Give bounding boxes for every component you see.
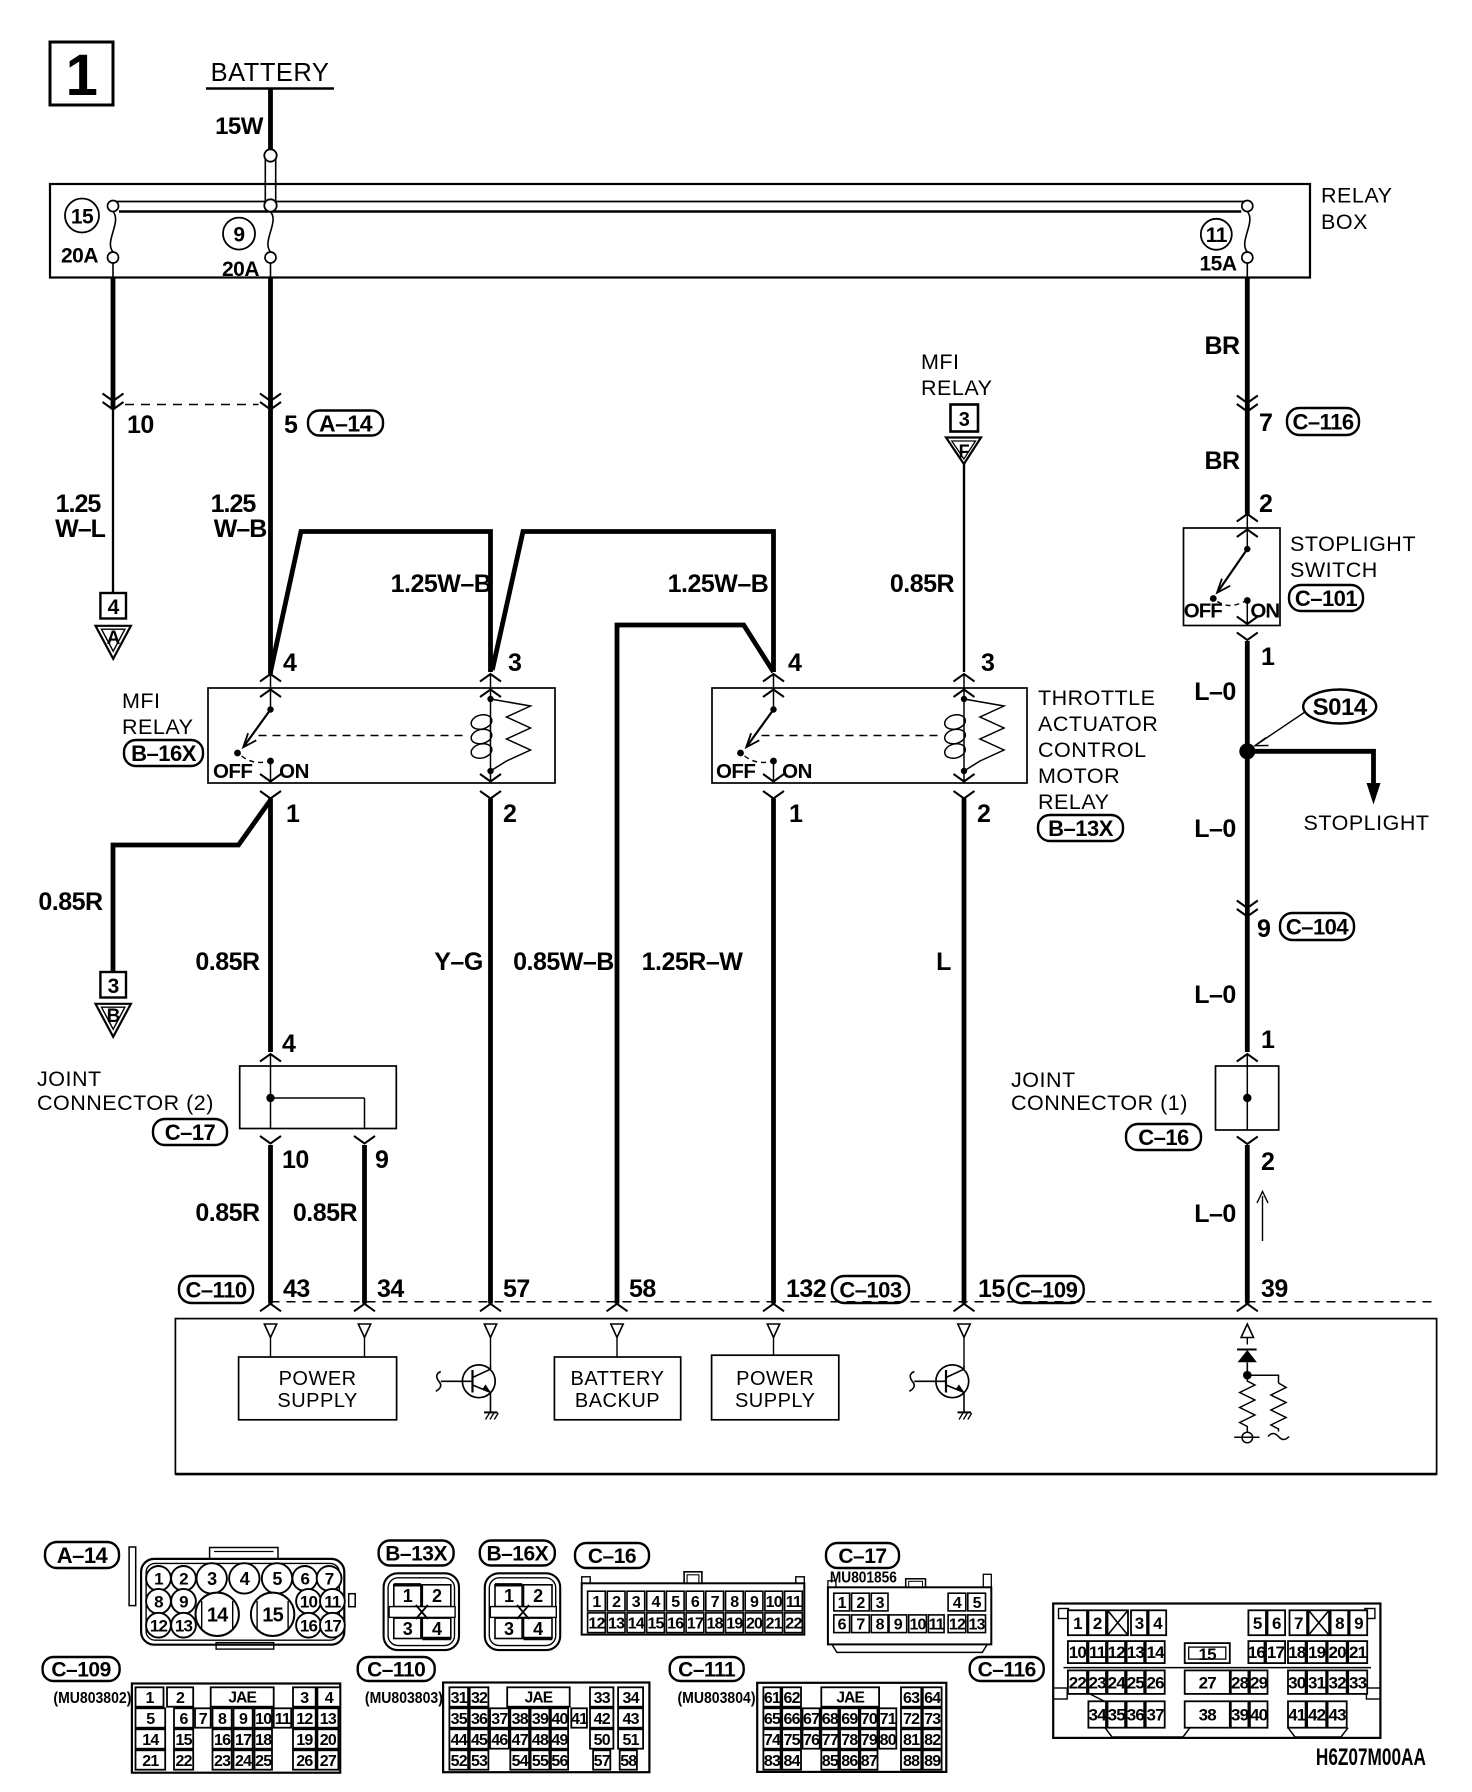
svg-text:3: 3 bbox=[108, 975, 119, 998]
svg-text:16: 16 bbox=[667, 1616, 684, 1633]
svg-text:B–16X: B–16X bbox=[486, 1543, 548, 1566]
A-14 cavity 1 bbox=[146, 1566, 171, 1591]
svg-text:2: 2 bbox=[856, 1595, 865, 1612]
svg-text:44: 44 bbox=[451, 1732, 468, 1749]
connector label B-13X bbox=[1038, 815, 1123, 841]
svg-text:12: 12 bbox=[296, 1711, 313, 1728]
svg-text:58: 58 bbox=[620, 1753, 637, 1770]
C-16 cavity 15 bbox=[647, 1613, 665, 1633]
B-16X index marks bbox=[495, 1583, 522, 1586]
svg-text:1.25W–B: 1.25W–B bbox=[391, 570, 492, 598]
svg-text:13: 13 bbox=[320, 1711, 337, 1728]
svg-text:6: 6 bbox=[1272, 1614, 1281, 1633]
svg-text:1.25: 1.25 bbox=[211, 490, 257, 518]
ECU pin 39 bbox=[1237, 1304, 1258, 1312]
svg-text:MFI: MFI bbox=[921, 350, 960, 374]
svg-text:BOX: BOX bbox=[1321, 210, 1368, 234]
svg-text:4: 4 bbox=[953, 1595, 962, 1612]
svg-text:53: 53 bbox=[471, 1753, 488, 1770]
svg-text:67: 67 bbox=[803, 1711, 820, 1728]
node pin39 divider bbox=[1243, 1371, 1252, 1380]
C-17 cavity 12 bbox=[948, 1615, 966, 1633]
svg-text:1.25R–W: 1.25R–W bbox=[642, 948, 744, 976]
joint connector 2 box bbox=[240, 1066, 397, 1129]
svg-text:39: 39 bbox=[532, 1711, 549, 1728]
svg-text:82: 82 bbox=[924, 1732, 941, 1749]
svg-text:23: 23 bbox=[1089, 1673, 1107, 1692]
svg-text:64: 64 bbox=[924, 1690, 941, 1707]
svg-text:5: 5 bbox=[284, 411, 298, 439]
svg-text:21: 21 bbox=[766, 1616, 783, 1633]
svg-text:41: 41 bbox=[1288, 1706, 1306, 1725]
svg-text:13: 13 bbox=[1127, 1643, 1145, 1662]
svg-text:31: 31 bbox=[451, 1690, 468, 1707]
svg-text:MOTOR: MOTOR bbox=[1038, 764, 1120, 788]
svg-text:20A: 20A bbox=[222, 258, 259, 281]
resistor R2 (pin 39 pull) bbox=[1247, 1375, 1278, 1383]
C-16 cavity 14 bbox=[627, 1613, 645, 1633]
svg-text:7: 7 bbox=[199, 1711, 208, 1728]
wire BR to stoplight switch bbox=[1245, 412, 1250, 517]
svg-text:1: 1 bbox=[145, 1690, 154, 1707]
svg-text:31: 31 bbox=[1308, 1673, 1326, 1692]
C-16 housing bbox=[582, 1583, 805, 1634]
svg-text:76: 76 bbox=[803, 1732, 820, 1749]
svg-text:77: 77 bbox=[822, 1732, 839, 1749]
B-16X cavity 2 bbox=[524, 1585, 553, 1607]
wire 0.85R MFI pin1 branch to ground B bbox=[113, 800, 271, 972]
svg-text:33: 33 bbox=[1349, 1673, 1367, 1692]
svg-text:5: 5 bbox=[1253, 1614, 1262, 1633]
C-110 row 3 bbox=[449, 1729, 468, 1748]
B-16X key slot bbox=[490, 1607, 556, 1618]
svg-text:32: 32 bbox=[471, 1690, 488, 1707]
svg-text:15W: 15W bbox=[215, 113, 264, 140]
joint connector 2 pin 4 chevron bbox=[260, 1054, 281, 1062]
fusible link battery bbox=[264, 152, 266, 205]
svg-text:65: 65 bbox=[764, 1711, 781, 1728]
A-14 cavity 13 bbox=[171, 1613, 196, 1638]
svg-text:84: 84 bbox=[783, 1753, 800, 1770]
inline connector C-104 pin 9 bbox=[1237, 901, 1258, 909]
svg-text:L–0: L–0 bbox=[1194, 981, 1236, 1009]
MFI relay pin 3 terminal bbox=[480, 674, 501, 682]
wire L-0 to joint connector C-16 bbox=[1245, 917, 1250, 1053]
svg-text:A–14: A–14 bbox=[57, 1543, 109, 1568]
svg-text:11: 11 bbox=[929, 1617, 945, 1634]
svg-text:22: 22 bbox=[785, 1616, 802, 1633]
C-110 row 4 bbox=[449, 1750, 468, 1769]
svg-text:9: 9 bbox=[179, 1592, 188, 1611]
svg-text:33: 33 bbox=[594, 1690, 611, 1707]
connector label C-110 view bbox=[358, 1657, 435, 1681]
connector label C-17 bbox=[153, 1119, 227, 1145]
svg-text:1: 1 bbox=[1261, 1026, 1275, 1054]
svg-text:22: 22 bbox=[1069, 1673, 1087, 1692]
svg-text:27: 27 bbox=[1199, 1673, 1217, 1692]
svg-text:2: 2 bbox=[1093, 1614, 1102, 1633]
svg-text:3: 3 bbox=[300, 1690, 309, 1707]
svg-text:0.85R: 0.85R bbox=[195, 1199, 260, 1227]
svg-text:3: 3 bbox=[959, 409, 970, 431]
svg-text:11: 11 bbox=[324, 1592, 341, 1611]
svg-text:3: 3 bbox=[876, 1595, 885, 1612]
svg-text:C–110: C–110 bbox=[367, 1659, 425, 1682]
svg-text:S014: S014 bbox=[1313, 694, 1368, 721]
svg-text:51: 51 bbox=[622, 1732, 639, 1749]
svg-text:BR: BR bbox=[1204, 332, 1240, 360]
relay box bbox=[50, 184, 1310, 278]
transistor Q1 (pin 57 driver) bbox=[462, 1365, 495, 1398]
C-110 row 1 bbox=[449, 1687, 468, 1706]
svg-text:C–111: C–111 bbox=[678, 1659, 736, 1682]
wire L throttle pin2 to ECU 15 bbox=[962, 799, 967, 1304]
C-16 cavity 19 bbox=[726, 1613, 744, 1633]
svg-text:BR: BR bbox=[1204, 447, 1240, 475]
svg-text:34: 34 bbox=[622, 1690, 639, 1707]
wire L-0 to ECU 39 bbox=[1245, 1145, 1250, 1304]
svg-text:73: 73 bbox=[924, 1711, 941, 1728]
svg-text:19: 19 bbox=[296, 1732, 313, 1749]
C-16 cavity 20 bbox=[745, 1613, 763, 1633]
connector label C-103 bbox=[832, 1276, 909, 1303]
svg-text:(MU803802): (MU803802) bbox=[53, 1690, 131, 1707]
svg-text:C–110: C–110 bbox=[185, 1277, 246, 1302]
wire 1.25 W-L upper bbox=[111, 278, 116, 410]
svg-text:63: 63 bbox=[903, 1690, 920, 1707]
svg-text:7: 7 bbox=[1259, 409, 1272, 437]
B-13X cavity 2 bbox=[422, 1585, 451, 1607]
svg-text:38: 38 bbox=[1199, 1706, 1217, 1725]
svg-text:3: 3 bbox=[403, 1619, 413, 1639]
C-17 cavity 10 bbox=[909, 1615, 927, 1633]
throttle relay pin 2 terminal bbox=[954, 774, 975, 782]
svg-text:35: 35 bbox=[451, 1711, 468, 1728]
fuse 15 (20A) bbox=[108, 201, 119, 212]
C-16 cavity 22 bbox=[785, 1613, 803, 1633]
svg-text:18: 18 bbox=[255, 1732, 272, 1749]
svg-text:19: 19 bbox=[1308, 1643, 1326, 1662]
MFI relay coil with resistor bbox=[487, 696, 493, 702]
svg-text:15: 15 bbox=[262, 1605, 283, 1627]
svg-text:1: 1 bbox=[154, 1570, 163, 1589]
C-116 row 4 bbox=[1088, 1701, 1106, 1727]
svg-text:6: 6 bbox=[300, 1570, 309, 1589]
svg-text:STOPLIGHT: STOPLIGHT bbox=[1290, 532, 1416, 556]
throttle relay pin 4 terminal bbox=[763, 674, 784, 682]
svg-text:4: 4 bbox=[240, 1569, 250, 1589]
C-109 outer frame bbox=[132, 1684, 340, 1773]
B-16X cavity 1 bbox=[495, 1585, 522, 1607]
connector label B-16X bbox=[124, 740, 203, 766]
bus bar 1 bbox=[113, 201, 1247, 203]
MFI relay feed triangle F bbox=[946, 438, 981, 465]
svg-text:15: 15 bbox=[175, 1732, 192, 1749]
flow direction arrow up bbox=[1262, 1196, 1264, 1241]
svg-text:69: 69 bbox=[841, 1711, 858, 1728]
ECU pin 58 bbox=[607, 1304, 628, 1312]
svg-text:16: 16 bbox=[1248, 1643, 1266, 1662]
svg-text:10: 10 bbox=[300, 1592, 318, 1611]
junction node S014 bbox=[1239, 743, 1255, 759]
svg-text:BACKUP: BACKUP bbox=[575, 1390, 660, 1412]
svg-text:17: 17 bbox=[687, 1616, 704, 1633]
svg-text:25: 25 bbox=[1127, 1673, 1145, 1692]
svg-text:15A: 15A bbox=[1199, 253, 1236, 276]
svg-text:2: 2 bbox=[503, 800, 516, 828]
svg-text:24: 24 bbox=[235, 1753, 252, 1770]
svg-text:B: B bbox=[107, 1006, 120, 1027]
svg-text:MFI: MFI bbox=[122, 689, 161, 713]
svg-text:6: 6 bbox=[691, 1594, 700, 1611]
svg-text:28: 28 bbox=[1231, 1673, 1249, 1692]
svg-text:7: 7 bbox=[856, 1617, 865, 1634]
svg-text:POWER: POWER bbox=[736, 1368, 814, 1390]
C-17 cavity 7 bbox=[852, 1615, 870, 1633]
svg-text:8: 8 bbox=[730, 1594, 739, 1611]
fuse 9 (20A) bbox=[264, 199, 276, 211]
connector label C-16 view bbox=[575, 1543, 649, 1568]
svg-text:20: 20 bbox=[320, 1732, 337, 1749]
svg-text:2: 2 bbox=[1261, 1148, 1274, 1176]
svg-text:10: 10 bbox=[255, 1711, 272, 1728]
A-14 housing bbox=[129, 1547, 136, 1606]
throttle relay coil with resistor bbox=[961, 696, 967, 702]
svg-text:4: 4 bbox=[282, 1030, 296, 1058]
wire branch to ECU pin 58 (0.85W-B) bbox=[617, 625, 774, 1304]
connector label C-109 view bbox=[43, 1657, 120, 1681]
svg-text:11: 11 bbox=[275, 1711, 291, 1728]
connector label C-17 view bbox=[826, 1543, 899, 1568]
C-109 row 3 bbox=[136, 1729, 166, 1748]
C-109 row 1 bbox=[136, 1687, 164, 1706]
svg-text:15: 15 bbox=[647, 1616, 664, 1633]
svg-text:39: 39 bbox=[1231, 1706, 1249, 1725]
svg-text:C–116: C–116 bbox=[1292, 409, 1353, 434]
wire battery feed 15W bbox=[268, 89, 273, 152]
A-14 cavity 17 bbox=[320, 1613, 345, 1638]
svg-text:POWER: POWER bbox=[279, 1368, 357, 1390]
joint connector 1 pin 2 bbox=[1237, 1137, 1258, 1145]
svg-text:BATTERY: BATTERY bbox=[571, 1368, 665, 1390]
svg-text:11: 11 bbox=[786, 1594, 802, 1611]
svg-text:17: 17 bbox=[1267, 1643, 1285, 1662]
svg-text:16: 16 bbox=[214, 1732, 231, 1749]
svg-text:1: 1 bbox=[403, 1586, 413, 1606]
joint connector 1 pin 1 chevron bbox=[1237, 1054, 1258, 1062]
svg-text:81: 81 bbox=[903, 1732, 920, 1749]
transistor Q2 (pin 15 driver) bbox=[936, 1365, 969, 1398]
svg-text:23: 23 bbox=[214, 1753, 231, 1770]
svg-text:41: 41 bbox=[571, 1711, 588, 1728]
svg-text:14: 14 bbox=[628, 1616, 645, 1633]
svg-text:7: 7 bbox=[325, 1570, 334, 1589]
svg-text:W–L: W–L bbox=[55, 515, 106, 543]
svg-text:3: 3 bbox=[207, 1569, 217, 1589]
svg-text:RELAY: RELAY bbox=[1321, 184, 1392, 208]
svg-text:CONTROL: CONTROL bbox=[1038, 738, 1147, 762]
ECU pin 43 bbox=[260, 1304, 281, 1312]
svg-text:17: 17 bbox=[324, 1616, 342, 1635]
svg-text:3: 3 bbox=[981, 649, 994, 677]
MFI relay pin 4 terminal bbox=[260, 674, 281, 682]
svg-text:71: 71 bbox=[880, 1711, 897, 1728]
battery backup block bbox=[554, 1357, 680, 1420]
ECU connector dashed interface bbox=[271, 1301, 1436, 1303]
A-14 cavity 6 bbox=[292, 1566, 317, 1591]
svg-text:13: 13 bbox=[969, 1617, 986, 1634]
joint connector 1 box bbox=[1216, 1066, 1279, 1130]
svg-text:9: 9 bbox=[894, 1617, 903, 1634]
stoplight switch box bbox=[1184, 528, 1281, 626]
svg-text:43: 43 bbox=[1328, 1706, 1346, 1725]
svg-text:15: 15 bbox=[71, 206, 94, 229]
svg-text:40: 40 bbox=[1250, 1706, 1268, 1725]
joint connector 2 pin 10 bbox=[260, 1136, 281, 1144]
A-14 cavity 9 bbox=[171, 1589, 196, 1614]
svg-text:32: 32 bbox=[1328, 1673, 1346, 1692]
A-14 cavity 4 bbox=[229, 1563, 259, 1593]
C-17 cavity 8 bbox=[871, 1615, 888, 1633]
svg-text:57: 57 bbox=[503, 1275, 530, 1303]
svg-text:0.85R: 0.85R bbox=[195, 948, 260, 976]
svg-text:12: 12 bbox=[150, 1616, 168, 1635]
svg-text:C–109: C–109 bbox=[1015, 1277, 1078, 1302]
A-14 cavity 12 bbox=[146, 1613, 171, 1638]
C-16 cavity 2 bbox=[607, 1591, 625, 1611]
svg-text:14: 14 bbox=[1147, 1643, 1166, 1662]
svg-text:6: 6 bbox=[838, 1617, 847, 1634]
connector label C-110 bbox=[179, 1276, 253, 1303]
throttle relay mechanical link bbox=[762, 735, 943, 737]
svg-text:10: 10 bbox=[766, 1594, 783, 1611]
power supply block 1 bbox=[239, 1357, 397, 1420]
C-17 cavity 4 bbox=[948, 1593, 966, 1611]
svg-text:13: 13 bbox=[608, 1616, 625, 1633]
svg-text:12: 12 bbox=[949, 1617, 966, 1634]
A-14 cavity 3 bbox=[197, 1563, 227, 1593]
svg-text:30: 30 bbox=[1288, 1673, 1306, 1692]
svg-text:132: 132 bbox=[786, 1275, 826, 1303]
svg-text:74: 74 bbox=[764, 1732, 781, 1749]
svg-text:RELAY: RELAY bbox=[1038, 790, 1109, 814]
wire branch to stoplight arrow bbox=[1247, 751, 1373, 785]
C-16 cavity 9 bbox=[745, 1591, 763, 1611]
svg-text:1.25W–B: 1.25W–B bbox=[668, 570, 769, 598]
svg-text:66: 66 bbox=[783, 1711, 800, 1728]
svg-text:1: 1 bbox=[1261, 643, 1275, 671]
connector label C-109 inline bbox=[1009, 1276, 1084, 1303]
svg-text:37: 37 bbox=[491, 1711, 508, 1728]
sheet number box 1 bbox=[50, 42, 113, 105]
svg-text:0.85R: 0.85R bbox=[38, 888, 103, 916]
svg-text:43: 43 bbox=[622, 1711, 639, 1728]
svg-text:OFF: OFF bbox=[213, 760, 253, 783]
svg-text:0.85W–B: 0.85W–B bbox=[513, 948, 614, 976]
svg-text:26: 26 bbox=[1147, 1673, 1165, 1692]
ECU terminal 132 bbox=[767, 1324, 779, 1338]
svg-text:7: 7 bbox=[711, 1594, 720, 1611]
svg-text:43: 43 bbox=[283, 1275, 310, 1303]
svg-text:2: 2 bbox=[179, 1570, 188, 1589]
C-16 cavity 4 bbox=[647, 1591, 665, 1611]
throttle relay box bbox=[712, 688, 1027, 783]
svg-text:46: 46 bbox=[491, 1732, 508, 1749]
svg-text:10: 10 bbox=[1069, 1643, 1087, 1662]
svg-text:4: 4 bbox=[432, 1619, 442, 1639]
svg-text:40: 40 bbox=[551, 1711, 568, 1728]
svg-text:42: 42 bbox=[594, 1711, 611, 1728]
svg-text:5: 5 bbox=[146, 1711, 155, 1728]
svg-text:61: 61 bbox=[764, 1690, 781, 1707]
svg-text:4: 4 bbox=[325, 1690, 334, 1707]
connector label C-111 view bbox=[670, 1657, 744, 1681]
svg-text:4: 4 bbox=[788, 649, 802, 677]
svg-text:MU801856: MU801856 bbox=[830, 1570, 897, 1587]
dashed connector link A-14 bbox=[125, 404, 259, 406]
svg-text:12: 12 bbox=[1108, 1643, 1126, 1662]
svg-text:C–103: C–103 bbox=[839, 1277, 902, 1302]
svg-text:34: 34 bbox=[1089, 1706, 1108, 1725]
svg-text:CONNECTOR (2): CONNECTOR (2) bbox=[37, 1091, 214, 1115]
C-16 cavity 21 bbox=[765, 1613, 783, 1633]
MFI relay pin 1 terminal bbox=[260, 774, 281, 782]
C-116 housing bbox=[1053, 1604, 1380, 1738]
C-17 cavity 13 bbox=[968, 1615, 986, 1633]
svg-text:9: 9 bbox=[750, 1594, 759, 1611]
svg-text:2: 2 bbox=[1259, 490, 1272, 518]
svg-text:49: 49 bbox=[551, 1732, 568, 1749]
resistor R1 (pin 39 pulldown) bbox=[1240, 1375, 1255, 1432]
svg-text:39: 39 bbox=[1261, 1275, 1288, 1303]
C-111 row 3 bbox=[763, 1729, 780, 1748]
throttle relay pin 1 terminal bbox=[763, 774, 784, 782]
svg-text:4: 4 bbox=[283, 649, 297, 677]
svg-text:50: 50 bbox=[594, 1732, 611, 1749]
svg-text:4: 4 bbox=[651, 1594, 660, 1611]
svg-text:4: 4 bbox=[108, 596, 120, 619]
svg-text:4: 4 bbox=[1153, 1614, 1163, 1633]
MFI relay pin 2 terminal bbox=[480, 774, 501, 782]
svg-text:SUPPLY: SUPPLY bbox=[277, 1390, 357, 1412]
wire 1.25 W-B to MFI relay pin 4 bbox=[268, 410, 273, 675]
svg-text:36: 36 bbox=[471, 1711, 488, 1728]
svg-text:58: 58 bbox=[629, 1275, 656, 1303]
ECU pin 15 bbox=[954, 1304, 975, 1312]
svg-text:STOPLIGHT: STOPLIGHT bbox=[1304, 811, 1430, 835]
svg-text:11: 11 bbox=[1206, 224, 1228, 247]
svg-text:ON: ON bbox=[782, 760, 812, 783]
svg-text:83: 83 bbox=[764, 1753, 781, 1770]
svg-text:10: 10 bbox=[909, 1617, 926, 1634]
ground A (4) bbox=[100, 593, 126, 619]
svg-text:C–101: C–101 bbox=[1295, 586, 1358, 611]
C-17 cavity 5 bbox=[968, 1593, 986, 1611]
C-17 cavity 11 bbox=[928, 1615, 944, 1633]
svg-text:RELAY: RELAY bbox=[921, 376, 992, 400]
svg-text:8: 8 bbox=[218, 1711, 227, 1728]
svg-text:24: 24 bbox=[1108, 1673, 1127, 1692]
B-13X housing bbox=[384, 1573, 459, 1650]
C-110 outer frame bbox=[443, 1683, 649, 1773]
svg-text:10: 10 bbox=[282, 1146, 309, 1174]
C-116 row 3 bbox=[1068, 1670, 1087, 1694]
C-110 row 2 bbox=[449, 1708, 468, 1727]
connector label C-104 bbox=[1280, 913, 1354, 940]
C-116 row 2 bbox=[1068, 1641, 1087, 1663]
C-16 cavity 18 bbox=[706, 1613, 724, 1633]
C-111 row 2 bbox=[763, 1708, 780, 1727]
